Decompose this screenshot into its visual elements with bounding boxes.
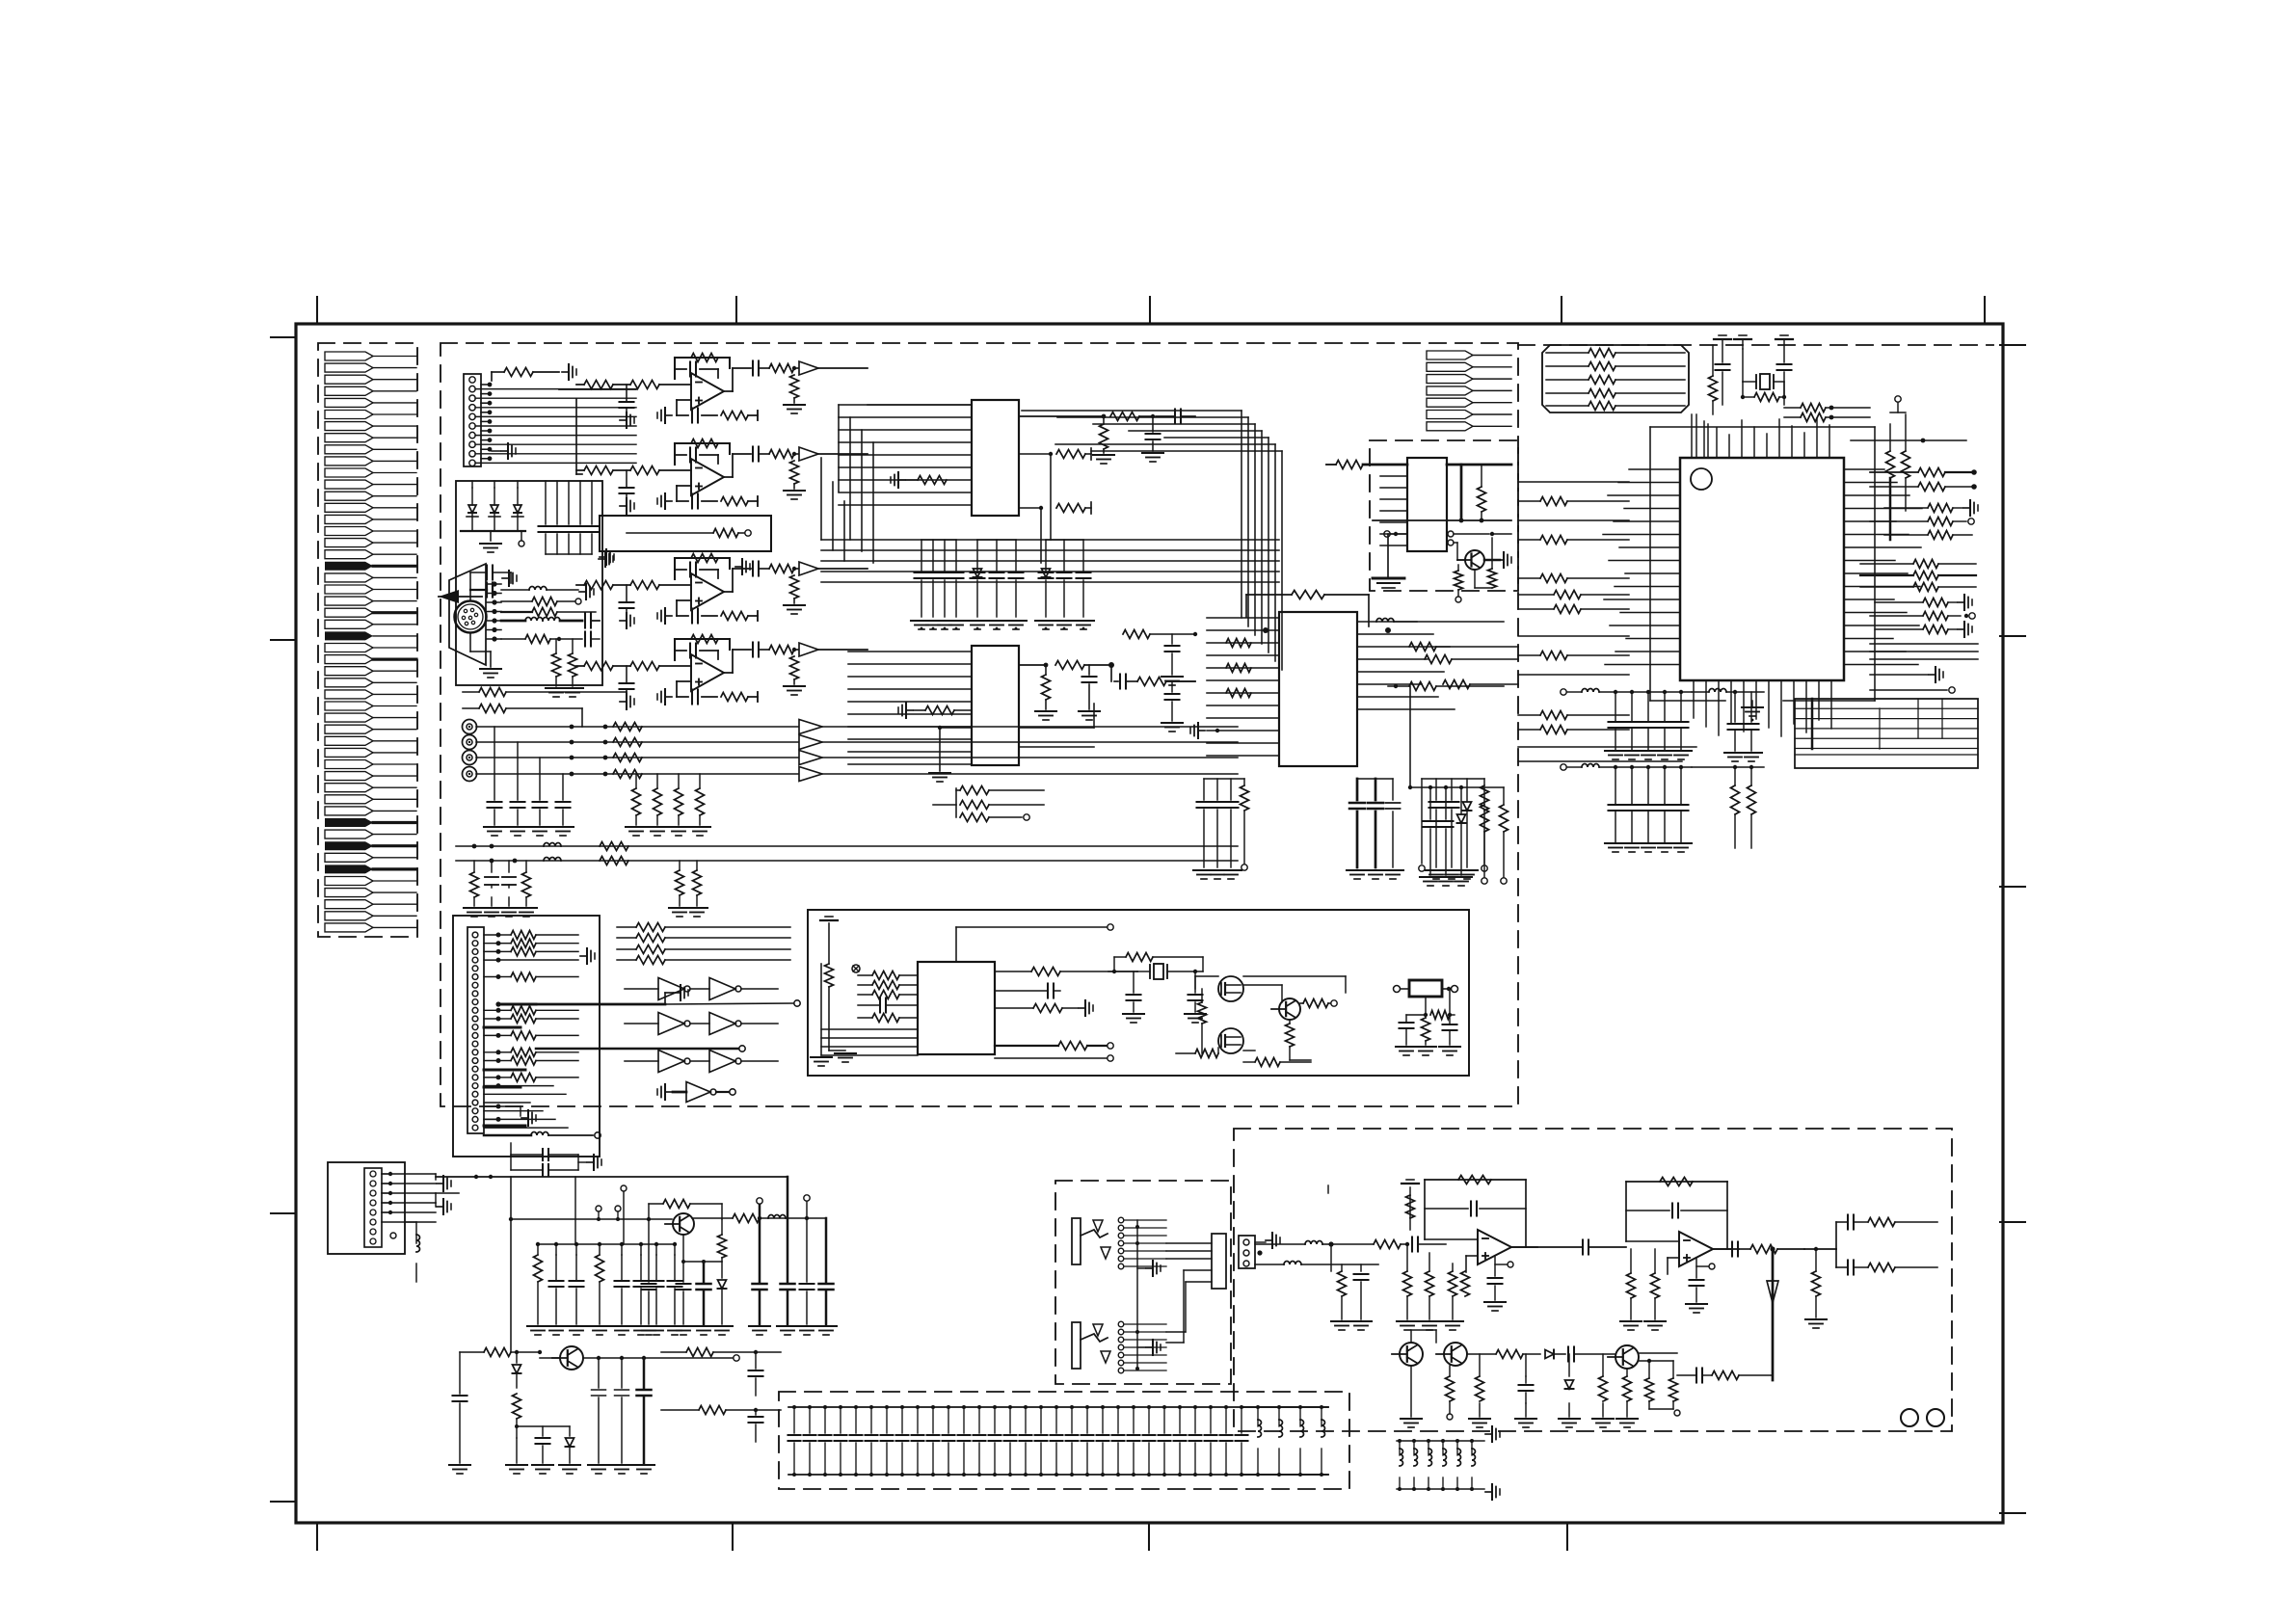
series resistor R301 bbox=[613, 723, 642, 732]
resistor pair right of crystal bbox=[1801, 404, 1826, 412]
cap bank row 1 bbox=[1561, 689, 1566, 695]
DAC right pin wires bbox=[1357, 621, 1417, 623]
header CN301 outer box bbox=[453, 916, 600, 1157]
DAC right ferrite bbox=[1376, 619, 1394, 623]
DAC right resistors bbox=[1409, 643, 1436, 652]
dashed region box A (top main) bbox=[441, 343, 1518, 1106]
sub IC left pins bbox=[1380, 464, 1407, 466]
sub IC U501 body bbox=[1407, 458, 1447, 551]
RC pair upper bbox=[661, 1351, 686, 1353]
circled terminal bbox=[852, 965, 860, 972]
Q502 output caps bbox=[598, 1358, 600, 1388]
left resistor to IC bbox=[825, 964, 834, 987]
top edge tick bbox=[1561, 297, 1562, 324]
header lower dot row bbox=[496, 1104, 501, 1109]
FET lower resistor bbox=[1243, 1050, 1255, 1051]
U301 aux resistor row 1 bbox=[1019, 453, 1051, 455]
inductor L201 bbox=[529, 587, 547, 591]
Q501 emitter resistor bbox=[718, 1235, 727, 1258]
headphone jack JK2 bbox=[1072, 1322, 1081, 1369]
buffer amp ch4 bbox=[799, 767, 822, 782]
bold wire right of U501 bbox=[1447, 464, 1511, 466]
Q603 collector resistor bbox=[1243, 984, 1282, 986]
MCU right net row1 bbox=[1851, 439, 1966, 441]
clock IC input RC network bbox=[858, 974, 872, 976]
long capacitor bank bbox=[788, 1406, 1243, 1408]
header CN301 junction dots bbox=[496, 933, 501, 938]
lone cap right bbox=[820, 1141, 822, 1147]
MCU right resistor r2 bbox=[1918, 483, 1945, 492]
headphone jack JK1 bbox=[1072, 1218, 1081, 1264]
Q902 bias bbox=[1446, 1376, 1455, 1401]
pin table grid bbox=[1795, 699, 1978, 768]
diode array common rail bbox=[461, 530, 525, 532]
RCA jack J304 signal wire bbox=[476, 773, 798, 775]
bottom edge tick bbox=[1566, 1523, 1568, 1550]
Q501 fb resistor bbox=[648, 1204, 650, 1219]
gnd stem above amp1 bbox=[1409, 1187, 1411, 1230]
vertical bus bundle at DAC bbox=[1241, 411, 1242, 618]
IC U302 left pin bus bbox=[848, 651, 972, 652]
power filter cluster 1 bbox=[537, 1244, 539, 1255]
op-amp U201B channel bbox=[675, 442, 730, 444]
series resistor R303 bbox=[613, 754, 642, 762]
MCU right res+circ2 bbox=[1923, 612, 1948, 621]
drop 4 bbox=[825, 1218, 828, 1282]
triple diode array D201 bbox=[468, 505, 476, 513]
input shunt resistors to ground bbox=[635, 774, 637, 788]
MCU right res plain bbox=[1928, 531, 1953, 540]
MCU crystal X801 bbox=[1760, 374, 1770, 389]
MOSFET Q601 bbox=[1218, 976, 1243, 1001]
resistor left of crystal bbox=[1709, 376, 1718, 401]
series resistor R302 bbox=[613, 738, 642, 747]
aux shunt resistors bbox=[679, 861, 681, 870]
Q903 bias resistors bbox=[1623, 1376, 1632, 1401]
IC U301 left bus verticals bbox=[838, 405, 840, 492]
junction dots ch4 bbox=[570, 772, 574, 777]
clock IC top wire to terminal bbox=[955, 927, 957, 962]
buffer out wire ch4 bbox=[822, 773, 1238, 775]
power bar caps bbox=[1722, 339, 1723, 362]
MCU right res+circ bbox=[1928, 518, 1953, 526]
Q502 emitter rail bbox=[583, 1357, 733, 1359]
Q502C base wire bbox=[1454, 542, 1457, 544]
top edge tick bbox=[316, 297, 318, 324]
mute chain bbox=[1467, 1353, 1496, 1355]
output branch node bbox=[1835, 1222, 1837, 1249]
resistor R203 bbox=[532, 608, 557, 617]
RC at U301 output bbox=[1110, 412, 1139, 421]
Q603 emitter resistor bbox=[1286, 1024, 1295, 1047]
MCU crystal resistor bbox=[1743, 396, 1754, 398]
buffer amp ch2 bbox=[799, 735, 822, 750]
rounded box resistors bbox=[1546, 352, 1589, 354]
Q501 filter caps bbox=[682, 1262, 684, 1282]
dashed region box D (output section) bbox=[1234, 1129, 1952, 1431]
amp2 shunt resistors bbox=[1627, 1273, 1636, 1298]
MCU right resistor r1 bbox=[1918, 468, 1945, 477]
series resistor R304 bbox=[613, 770, 642, 779]
aux input line bbox=[456, 845, 1238, 847]
bold supply wire into U501 bbox=[1363, 464, 1407, 466]
long wires left of MCU bbox=[1518, 481, 1629, 483]
cap bank row 2 bbox=[1561, 764, 1566, 770]
level resistor to gnd bbox=[1812, 1271, 1821, 1296]
MCU U801 body bbox=[1680, 458, 1844, 680]
header ground bbox=[674, 992, 681, 994]
resistor into U302 bbox=[925, 706, 954, 715]
IC U302 body bbox=[972, 646, 1019, 765]
resistor R202 bbox=[532, 598, 557, 606]
header bold rail bbox=[498, 1003, 536, 1006]
Q903 output to fb bbox=[1639, 1352, 1677, 1354]
power lead caps bbox=[435, 1174, 437, 1180]
wire riser to opamp rows bbox=[559, 388, 636, 390]
resistor trio near U302 bbox=[955, 788, 957, 817]
IC U301 body bbox=[972, 400, 1019, 516]
mute transistor Q901 bbox=[1400, 1343, 1423, 1366]
mute transistor Q903 bbox=[1615, 1345, 1639, 1369]
cap above DIN bbox=[486, 566, 488, 580]
Q502C bias resistors bbox=[1455, 571, 1463, 590]
DAC input dots bbox=[1263, 627, 1268, 633]
Q502C emitter chassis gnd bbox=[1484, 559, 1500, 562]
buffer out wire ch3 bbox=[822, 757, 1238, 758]
decoupling caps under U301 bbox=[921, 540, 922, 571]
power lead ferrite bbox=[416, 1235, 420, 1252]
series resistor lower bbox=[460, 1351, 484, 1353]
decoupling group mid of DAC bottom bbox=[1356, 779, 1359, 800]
left edge tick bbox=[271, 336, 296, 338]
jack bus wires bbox=[1166, 1242, 1212, 1244]
clock section box bbox=[808, 910, 1469, 1076]
jack wiring IC bbox=[1212, 1234, 1226, 1289]
mid column rail bbox=[1409, 686, 1411, 787]
feedback vertical bold bbox=[1772, 1249, 1775, 1380]
Q501 emitter rail bbox=[692, 1217, 733, 1219]
transistor Q502C bbox=[1465, 550, 1484, 570]
jack gnd 1 bbox=[1146, 1267, 1153, 1269]
aux series resistor bbox=[600, 842, 628, 851]
RCA jack J302 signal wire bbox=[476, 741, 798, 743]
cap bank row 1 right bbox=[1709, 689, 1726, 692]
DIN connector pin leads bbox=[492, 581, 496, 586]
header lower bold bbox=[484, 1125, 525, 1128]
MCU right pins bbox=[1844, 468, 1884, 470]
output connector CN401 bbox=[1239, 1236, 1255, 1268]
bank ferrites bbox=[1256, 1405, 1260, 1409]
buffer amp ch3 bbox=[799, 751, 822, 765]
MCU right res+gnd2 bbox=[1923, 599, 1948, 607]
RCA jack J303 bbox=[463, 751, 477, 765]
filter caps row in DIN box bbox=[545, 481, 547, 524]
resistor rows left of MCU bbox=[1518, 500, 1540, 502]
wire from circle to right bbox=[1454, 533, 1489, 535]
pass transistor Q502 bbox=[560, 1346, 583, 1370]
junction dots ch3 bbox=[570, 756, 574, 760]
left edge tick bbox=[271, 639, 296, 641]
aux input RC to ground cluster bbox=[473, 861, 475, 872]
transistor Q603 bbox=[1279, 998, 1300, 1020]
RCA jack J303 signal wire bbox=[476, 757, 798, 758]
bold rail drop 2 bbox=[787, 1177, 789, 1282]
headphone jack contacts bbox=[1118, 1217, 1124, 1223]
DAC left pin resistors bbox=[1226, 639, 1251, 648]
aux input line bbox=[456, 860, 1238, 862]
dashed region box C (sub circuit) bbox=[1370, 440, 1518, 591]
connector CN201 body bbox=[464, 374, 481, 466]
power connector CN501 box bbox=[328, 1162, 405, 1254]
card edge connector bold tails bbox=[373, 565, 416, 568]
DIN connector J201 shell bbox=[449, 564, 486, 665]
header circles right bbox=[794, 1000, 800, 1006]
MCU right circle term bbox=[1870, 689, 1947, 691]
single inverter U701F bbox=[673, 1091, 686, 1094]
aux series resistor bbox=[600, 857, 628, 865]
clock lower resistor to terminals bbox=[1058, 1042, 1087, 1051]
chassis ground at delay block bbox=[599, 558, 605, 560]
earth symbol left bbox=[828, 923, 830, 964]
hex inverter array U701 bbox=[625, 988, 658, 990]
Q901 emitter down bbox=[1410, 1366, 1412, 1417]
MCU right triple res bbox=[1913, 560, 1938, 569]
DIN shell ground bbox=[469, 633, 471, 652]
output branch top bbox=[1847, 1215, 1849, 1230]
aux ferrite bead bbox=[544, 843, 561, 847]
mute transistor Q902 bbox=[1444, 1343, 1467, 1366]
aux line junctions bbox=[472, 844, 477, 849]
buffer amp ch1 bbox=[799, 720, 822, 734]
op-amp U202A channel bbox=[675, 557, 730, 559]
filter caps bottom rail bbox=[546, 553, 592, 555]
U302 ground stem bbox=[940, 727, 972, 729]
input shunt RC bbox=[1330, 1244, 1332, 1271]
decoupling group left of DAC bottom bbox=[1203, 779, 1205, 800]
MCU pin1 marker bbox=[1691, 468, 1712, 490]
header lower caps bbox=[510, 1143, 512, 1155]
resistor R201 bbox=[491, 372, 493, 381]
MCU routing ring bbox=[1650, 426, 1875, 428]
header row3 long wire bbox=[498, 959, 578, 961]
cap bank row 2 right bbox=[1692, 766, 1764, 768]
buffer out wire ch2 bbox=[822, 741, 1238, 743]
power connector pins bbox=[370, 1171, 376, 1177]
IC U301 left pin bus bbox=[839, 404, 972, 406]
header CN301 pin circles bbox=[472, 932, 478, 938]
right edge tick bbox=[2000, 1512, 2025, 1514]
output coupling bbox=[1731, 1242, 1733, 1257]
sgnd near pins bbox=[502, 577, 509, 579]
cluster rails bbox=[921, 539, 956, 541]
resistors to ground below DIN bbox=[552, 653, 561, 677]
mid column RC to ground bbox=[1428, 785, 1432, 789]
clock out resistor row bbox=[995, 971, 1031, 972]
DAC U401 body bbox=[1279, 612, 1357, 766]
header bold stubs bbox=[484, 1026, 521, 1029]
stub terminals on base wire bbox=[596, 1206, 601, 1211]
cluster 1 top rail bbox=[538, 1243, 675, 1245]
two resistor wires below box bbox=[463, 691, 479, 693]
inter-stage cap bbox=[1582, 1240, 1584, 1255]
sub IC output circles bbox=[1448, 531, 1454, 537]
DIN connector J201 barrel bbox=[455, 601, 487, 633]
Q502 base caps bbox=[542, 1426, 544, 1436]
input cap lower bbox=[459, 1352, 461, 1394]
series resistor to amp bbox=[1331, 1243, 1374, 1245]
DAC left pin wires bbox=[1207, 617, 1279, 619]
pullup resistor pair bbox=[1886, 451, 1895, 478]
bus corner joins bbox=[820, 458, 822, 540]
jack gnd 2 bbox=[1146, 1346, 1153, 1348]
Q501 lower node bbox=[682, 1236, 684, 1262]
mid column feed resistor bbox=[1388, 685, 1409, 687]
RCA jack J302 bbox=[463, 735, 477, 750]
power connector leads bbox=[382, 1173, 436, 1175]
amp1 shunt resistors bbox=[1403, 1271, 1412, 1296]
zener bias net bbox=[513, 1394, 521, 1419]
clock IC U601 body bbox=[918, 962, 995, 1054]
cap at fb loop bbox=[648, 1219, 650, 1282]
base feed wire bbox=[511, 1218, 672, 1220]
right edge tick bbox=[2000, 344, 2025, 346]
connector CN201 pin junction dots bbox=[488, 383, 493, 387]
U301 aux resistor row 2 bbox=[1019, 507, 1041, 509]
thin drop 3 bbox=[804, 1195, 810, 1201]
MCU left pins bbox=[1629, 468, 1680, 470]
output op-amp U901A bbox=[1425, 1179, 1526, 1181]
right edge tick bbox=[2000, 635, 2025, 637]
rail drops bbox=[574, 1177, 576, 1244]
header CN301 pin strip bbox=[467, 927, 484, 1133]
MCU right res+gnd3 bbox=[1923, 625, 1948, 634]
DIN connector J201 arrow bbox=[439, 590, 459, 603]
ground chassis after R201 bbox=[562, 371, 569, 373]
U901A input grounds bbox=[1461, 1271, 1470, 1296]
circle node left bbox=[1384, 531, 1390, 537]
zener in cluster bbox=[1042, 569, 1051, 577]
left edge tick bbox=[271, 1501, 296, 1503]
riser wires above MCU bbox=[1695, 414, 1697, 458]
RCA jack J301 signal wire bbox=[476, 726, 798, 728]
right edge tick bbox=[2000, 1221, 2025, 1223]
connector CN201 bus wires bbox=[475, 388, 636, 390]
header CN301 stub wires bbox=[484, 1085, 553, 1087]
decoupling group right of DAC bottom bbox=[1421, 779, 1423, 864]
RC pair lower bbox=[661, 1409, 699, 1411]
diode in cluster bbox=[974, 569, 982, 577]
op-amp U202B channel bbox=[675, 638, 730, 640]
output jacks bbox=[1901, 1409, 1918, 1426]
right edge tick bbox=[2000, 886, 2025, 888]
sub box around DIN connector bbox=[456, 481, 602, 685]
MCU right res+gnd bbox=[1928, 504, 1953, 513]
dashed region box E (phone jacks) bbox=[1055, 1181, 1231, 1384]
connector top ground bbox=[1266, 1239, 1272, 1241]
top edge tick bbox=[1984, 297, 1986, 324]
DIN connector J201 pins bbox=[464, 609, 467, 612]
delay line internal trimmer bbox=[627, 532, 713, 534]
output op-amp U901B bbox=[1626, 1181, 1727, 1183]
power connector dots bbox=[388, 1172, 392, 1176]
power connector pin strip bbox=[364, 1168, 382, 1247]
Q901 base stem bbox=[1410, 1330, 1412, 1343]
delay line block DL201 bbox=[600, 516, 771, 551]
bold ground in box C bbox=[1387, 534, 1389, 576]
U302 lower pin wires bbox=[1019, 727, 1094, 729]
input RC to DAC ch2 bbox=[1166, 680, 1195, 682]
clock IC lower bus bbox=[821, 1028, 918, 1030]
rounded resistor network box bbox=[1542, 345, 1689, 412]
output branch bottom bbox=[1847, 1261, 1849, 1275]
ground below diode array bbox=[490, 531, 492, 541]
VR601 filter bbox=[1425, 997, 1427, 1015]
MCU right gnd stem bbox=[1870, 674, 1928, 676]
voltage reg VR601 bbox=[1409, 980, 1442, 997]
bottom edge tick bbox=[732, 1523, 734, 1550]
buffer out wire ch1 bbox=[822, 726, 1238, 728]
op-amp U201A channel bbox=[675, 357, 730, 359]
mute chain shunts bbox=[1479, 1354, 1481, 1376]
MOSFET Q602 bbox=[1218, 1028, 1243, 1053]
MCU top pins bbox=[1691, 414, 1693, 458]
top edge tick bbox=[735, 297, 737, 324]
connector CN201 pins bbox=[469, 377, 475, 383]
pass transistor Q501 bbox=[673, 1213, 694, 1235]
top edge tick bbox=[1149, 297, 1151, 324]
IC U301 output wire bbox=[1019, 415, 1104, 417]
resistor into U301 bbox=[918, 476, 947, 485]
junction dots ch2 bbox=[570, 740, 574, 745]
left edge tick bbox=[271, 1212, 296, 1214]
power bars above MCU bbox=[1714, 338, 1731, 340]
page border frame bbox=[296, 324, 2003, 1523]
digital bus bundle bbox=[821, 539, 1279, 541]
RCA jack J304 bbox=[463, 767, 477, 782]
header lower ferrite bbox=[531, 1132, 548, 1136]
resistor right of U501 bbox=[1478, 487, 1486, 512]
wires FET to right bbox=[1243, 975, 1346, 977]
MCU bottom pins bbox=[1693, 680, 1695, 718]
dashed top line right extension bbox=[1518, 344, 1993, 346]
crystal X601 circuit bbox=[1108, 971, 1137, 972]
node rail below U501 bbox=[1373, 519, 1511, 521]
bold row with ferrites bbox=[501, 620, 525, 623]
zener lower bbox=[516, 1352, 518, 1363]
row with resistor cap bbox=[501, 638, 525, 640]
junction dots ch1 bbox=[570, 725, 574, 730]
bottom edge tick bbox=[1148, 1523, 1150, 1550]
FET gate network bbox=[1195, 975, 1218, 977]
input shunt caps to ground bbox=[494, 727, 495, 800]
aux ferrite bead bbox=[544, 858, 561, 861]
connector bottom chassis gnd bbox=[501, 450, 508, 452]
header CN301 pull resistors bbox=[498, 934, 511, 936]
card edge connector CN101 pins bbox=[325, 352, 373, 360]
mini connector strip pins bbox=[1427, 351, 1473, 359]
bold rail drop 1 bbox=[757, 1198, 762, 1204]
signal path ferrites bbox=[1305, 1241, 1322, 1245]
card edge connector wires bbox=[373, 356, 416, 358]
power rail top bbox=[436, 1176, 788, 1178]
DAC ground pin bbox=[1198, 730, 1205, 732]
MCU right wire trio bbox=[1870, 643, 1978, 645]
input RC to DAC ch1 bbox=[1123, 630, 1150, 639]
resistor bundle above inverters bbox=[617, 926, 636, 928]
long link wires bbox=[510, 1185, 512, 1193]
MCU bottom ground bbox=[1742, 706, 1763, 708]
post-amp cap bank bbox=[1397, 1440, 1472, 1442]
